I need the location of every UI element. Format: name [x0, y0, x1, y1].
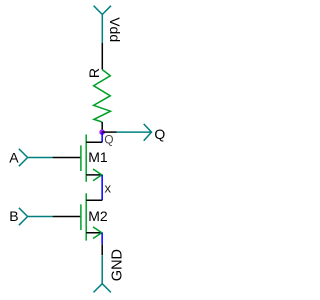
M2 channel bar [85, 193, 87, 240]
M1 source arrow [93, 169, 102, 181]
wire resistor to node Q [101, 122, 103, 132]
M1 gate bar [80, 145, 82, 171]
M2 drain lead [86, 199, 102, 201]
wire M1 source to M2 drain (blue) [101, 175, 103, 200]
power symbol Vdd [94, 6, 111, 43]
wire to ground (black) [101, 244, 103, 255]
resistor R [94, 70, 111, 122]
M1 channel bar [85, 135, 87, 182]
node Q dot [99, 129, 105, 135]
svg-text:M2: M2 [88, 208, 108, 224]
svg-text:Q: Q [104, 133, 113, 147]
output port Q [117, 124, 152, 141]
transistor M2 [81, 193, 108, 240]
svg-text:M1: M1 [88, 149, 108, 165]
M2 source arrow [93, 227, 102, 239]
svg-text:GND: GND [110, 249, 126, 281]
svg-text:A: A [9, 149, 19, 165]
svg-text:x: x [105, 180, 112, 195]
input port A [19, 149, 53, 166]
wire A to M1 gate [53, 157, 81, 159]
M2 gate bar [80, 204, 82, 230]
wire node to output port [102, 131, 116, 133]
input port B [19, 208, 53, 225]
wire node Q to M1 drain (blue) [101, 132, 103, 142]
svg-text:Vdd: Vdd [107, 17, 123, 42]
M1 source lead [86, 174, 102, 176]
wire B to M2 gate [53, 216, 81, 218]
ground symbol [94, 255, 111, 292]
wire M2 source down (blue) [101, 233, 103, 245]
svg-text:Q: Q [154, 126, 165, 142]
svg-text:R: R [86, 68, 102, 78]
svg-text:B: B [9, 208, 18, 224]
transistor M1 [81, 135, 108, 182]
M2 source lead [86, 232, 102, 234]
M1 drain lead [86, 141, 102, 143]
wire Vdd to resistor [101, 43, 103, 70]
